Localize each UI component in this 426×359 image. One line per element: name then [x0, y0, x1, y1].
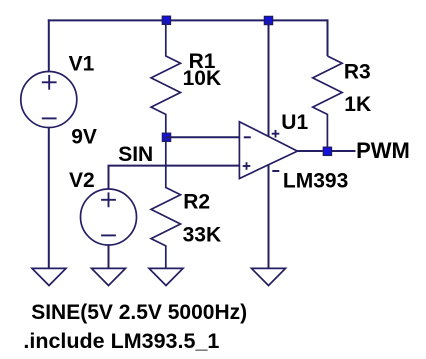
resistor R2	[151, 137, 180, 268]
wire: V+ power pin from top rail into op-amp	[268, 20, 270, 136]
wire: top rail from V1 to R3 column	[48, 19, 329, 21]
ground: under V2	[92, 268, 126, 285]
svg-text:9V: 9V	[71, 126, 97, 149]
directive text: SINE(5V 2.5V 5000Hz)	[31, 301, 247, 324]
svg-text:LM393: LM393	[283, 169, 348, 192]
svg-text:10K: 10K	[183, 67, 222, 90]
wire: op-amp output to PWM flag	[297, 150, 355, 152]
net label PWM	[356, 138, 410, 163]
label LM393	[283, 169, 348, 192]
label R1	[189, 50, 216, 73]
value label 10K	[183, 67, 222, 90]
svg-text:R3: R3	[344, 60, 371, 83]
wire: V2 top stem to op-amp non-inverting input	[109, 166, 240, 189]
junction: output / R3 / PWM	[323, 147, 331, 155]
op-amp inverting input mark -	[244, 136, 251, 138]
wire: top rail corner down to R3	[327, 19, 329, 56]
svg-text:R2: R2	[183, 191, 210, 214]
net label SIN	[118, 143, 153, 166]
junction: top rail / R1	[162, 16, 170, 24]
svg-text:SIN: SIN	[118, 143, 153, 166]
svg-text:33K: 33K	[183, 223, 222, 246]
op-amp non-inverting input mark +	[243, 162, 251, 170]
label U1	[281, 111, 308, 134]
wire: V2 bottom stem to ground	[108, 245, 110, 268]
voltage source V2 (sine)	[81, 189, 137, 245]
ground: under R2	[149, 268, 183, 285]
label R3	[344, 60, 371, 83]
svg-text:1K: 1K	[344, 93, 371, 116]
svg-text:SINE(5V 2.5V 5000Hz): SINE(5V 2.5V 5000Hz)	[31, 301, 247, 324]
directive text: .include LM393.5_1	[23, 329, 219, 353]
svg-text:V1: V1	[69, 53, 95, 76]
junction: SIN node (R1/R2/op-amp inverting input)	[162, 133, 170, 141]
ground: under V1	[32, 268, 66, 285]
svg-text:.include LM393.5_1: .include LM393.5_1	[23, 329, 219, 353]
label V2	[69, 169, 95, 192]
value label 1K	[344, 93, 371, 116]
op-amp V- power mark -	[272, 170, 279, 172]
voltage source V1	[21, 72, 77, 128]
ground: under op-amp V- pin	[252, 268, 286, 285]
op-amp V+ power mark +	[272, 130, 280, 138]
wire: V1 bottom stem to ground	[48, 128, 50, 269]
value label 9V	[71, 126, 97, 149]
wire: V1 top stem	[48, 19, 50, 71]
label R2	[183, 191, 210, 214]
op-amp U1 triangle	[239, 122, 297, 179]
svg-text:PWM: PWM	[356, 138, 410, 163]
svg-text:V2: V2	[69, 169, 95, 192]
junction: top rail / op-amp V+ column	[264, 16, 272, 24]
value label 33K	[183, 223, 222, 246]
resistor R3	[313, 56, 342, 151]
svg-text:U1: U1	[281, 111, 308, 134]
wire: V- power pin to ground	[268, 165, 270, 269]
resistor R1	[151, 20, 180, 137]
label V1	[69, 53, 95, 76]
wire: SIN node to op-amp inverting input	[166, 136, 240, 138]
